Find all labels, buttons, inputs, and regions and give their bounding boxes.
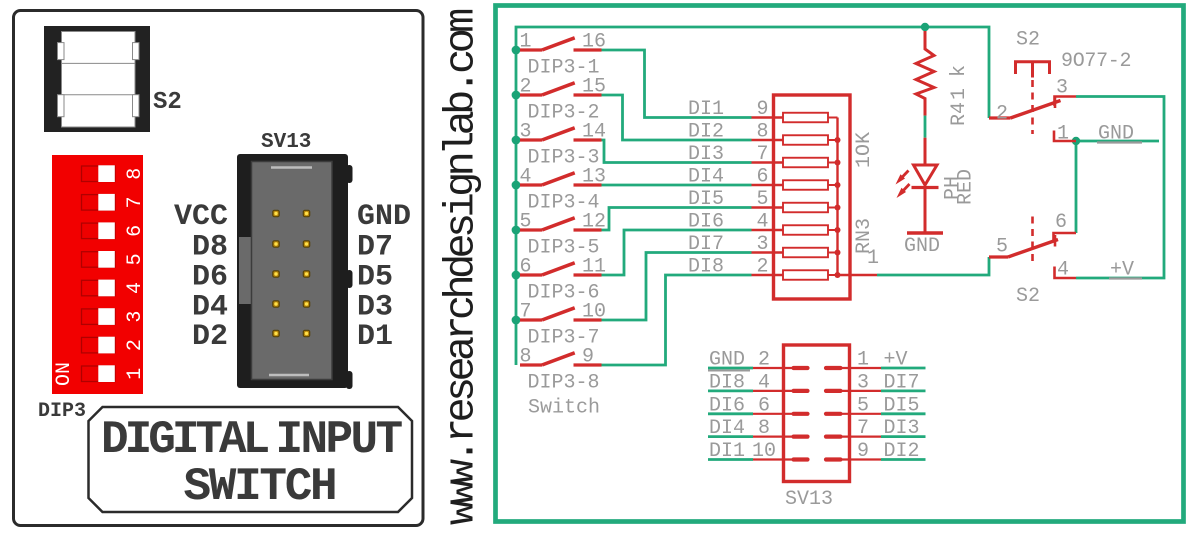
svg-text:2: 2	[758, 349, 770, 372]
svg-text:DI4: DI4	[688, 166, 724, 189]
wire S2 pin3 to +V net	[1076, 97, 1164, 279]
junction node bus pin 1	[512, 46, 521, 55]
svg-text:3: 3	[124, 311, 147, 323]
switch DIP3-3	[520, 121, 607, 170]
svg-text:D2: D2	[192, 320, 228, 354]
svg-text:3: 3	[756, 233, 768, 256]
svg-text:+V: +V	[884, 349, 908, 372]
switch DIP3-5	[520, 211, 607, 260]
net label GND	[1097, 123, 1142, 146]
svg-text:GND: GND	[904, 235, 940, 258]
svg-text:GND: GND	[357, 200, 411, 234]
svg-text:9: 9	[756, 98, 768, 121]
svg-text:11: 11	[582, 256, 606, 279]
resistor network RN3	[752, 95, 878, 299]
S2 interlock bracket	[1016, 62, 1050, 134]
svg-text:DI5: DI5	[688, 188, 724, 211]
switch S2 (board component)	[44, 26, 150, 132]
svg-text:D6: D6	[192, 261, 228, 295]
svg-text:1: 1	[124, 368, 147, 380]
switch DIP3-8	[520, 346, 602, 395]
svg-text:9: 9	[857, 440, 869, 463]
net label +V	[1109, 259, 1142, 282]
SV13 left wires and labels	[708, 349, 776, 464]
svg-text:Switch: Switch	[528, 397, 600, 420]
svg-text:6: 6	[758, 394, 770, 417]
wire DIP3-1 to RN3 pin 9	[602, 50, 752, 118]
svg-text:D5: D5	[357, 261, 393, 295]
svg-text:www.researchdesignlab.com: www.researchdesignlab.com	[438, 9, 486, 525]
svg-text:6: 6	[1055, 211, 1067, 234]
svg-text:S2: S2	[1016, 285, 1040, 308]
svg-text:GND: GND	[709, 349, 745, 372]
svg-text:4: 4	[756, 211, 768, 234]
svg-text:4: 4	[124, 282, 147, 294]
svg-text:14: 14	[582, 121, 606, 144]
board pin labels GND D7 D5 D3 D1	[357, 200, 411, 354]
svg-text:9: 9	[582, 346, 594, 369]
svg-text:7: 7	[124, 196, 147, 208]
svg-text:SV13: SV13	[261, 131, 311, 154]
svg-text:DIP3-8: DIP3-8	[528, 372, 600, 395]
junction node GND	[1072, 137, 1080, 145]
svg-text:10: 10	[582, 301, 606, 324]
svg-text:2: 2	[124, 339, 147, 351]
svg-text:8: 8	[758, 417, 770, 440]
svg-text:2: 2	[520, 76, 532, 99]
switch DIP3-1	[520, 31, 607, 80]
junction node R4 top	[921, 23, 929, 31]
junction node bus pin 4	[512, 181, 521, 190]
switch DIP3-4	[520, 166, 607, 215]
svg-text:10: 10	[752, 440, 776, 463]
svg-text:S2: S2	[153, 89, 182, 116]
svg-text:DI4: DI4	[709, 417, 745, 440]
svg-text:3: 3	[857, 371, 869, 394]
ground symbol under LED	[904, 233, 943, 258]
wire RN3 pin1 to S2 pin5	[877, 257, 989, 275]
svg-text:D8: D8	[192, 231, 228, 265]
RN3 pin numbers and net labels	[688, 98, 879, 279]
svg-text:8: 8	[124, 168, 147, 180]
switch S2 section B (pins 5-6-4)	[989, 211, 1076, 282]
svg-text:DI1: DI1	[688, 98, 724, 121]
svg-text:7: 7	[857, 417, 869, 440]
svg-text:DI7: DI7	[884, 371, 920, 394]
board outline	[14, 11, 424, 526]
svg-text:DI2: DI2	[688, 121, 724, 144]
svg-text:8: 8	[520, 346, 532, 369]
svg-text:DI2: DI2	[884, 440, 920, 463]
switch S2 section A (pins 2-3)	[989, 77, 1076, 126]
switch DIP3-2	[520, 76, 607, 125]
wire bus left vertical	[516, 27, 989, 365]
resistor R4 1k	[916, 31, 971, 138]
LED PH RED	[896, 138, 978, 233]
svg-text:7: 7	[756, 143, 768, 166]
junction node bus pin 6	[512, 271, 521, 280]
svg-text:SV13: SV13	[785, 488, 833, 511]
board pin labels VCC D8 D6 D4 D2	[174, 200, 228, 354]
svg-text:DI3: DI3	[688, 143, 724, 166]
switch DIP3-7	[520, 301, 607, 350]
connector SV13 (board component)	[237, 154, 353, 389]
svg-text:1k: 1k	[948, 54, 971, 100]
svg-text:1: 1	[857, 349, 869, 372]
wire DIP3-3 to RN3 pin 7	[602, 140, 752, 163]
svg-text:1: 1	[520, 31, 532, 54]
wire DIP3-2 to RN3 pin 8	[602, 95, 752, 140]
svg-text:6: 6	[756, 166, 768, 189]
svg-text:DI8: DI8	[688, 256, 724, 279]
svg-text:VCC: VCC	[174, 200, 228, 234]
svg-text:3: 3	[1056, 77, 1068, 100]
wire GND net from S2 pin1	[1076, 141, 1159, 233]
svg-text:5: 5	[520, 211, 532, 234]
svg-text:13: 13	[582, 166, 606, 189]
svg-text:RN3: RN3	[853, 218, 876, 254]
svg-text:R4: R4	[948, 102, 971, 126]
DIP switch DIP3 (board component)	[52, 155, 147, 394]
svg-text:1OK: 1OK	[853, 132, 876, 168]
wire DIP3-4 to RN3 pin 6	[602, 184, 752, 187]
svg-text:6: 6	[520, 256, 532, 279]
connector SV13 (schematic)	[753, 345, 881, 482]
S2 pin1	[1054, 123, 1076, 146]
svg-text:DIGITAL: DIGITAL	[101, 414, 269, 466]
svg-text:3: 3	[520, 121, 532, 144]
svg-text:15: 15	[582, 76, 606, 99]
svg-text:7: 7	[520, 301, 532, 324]
svg-text:4: 4	[520, 166, 532, 189]
svg-text:12: 12	[582, 211, 606, 234]
board title box DIGITAL INPUT SWITCH	[89, 407, 413, 513]
svg-text:RED: RED	[955, 169, 978, 205]
wire DIP3-8 to RN3 pin 2	[602, 275, 752, 365]
svg-text:2: 2	[756, 256, 768, 279]
schematic frame	[496, 6, 1184, 522]
svg-text:INPUT: INPUT	[276, 414, 403, 466]
wire DIP3-7 to RN3 pin 3	[602, 253, 752, 321]
wire DIP3-6 to RN3 pin 4	[602, 230, 752, 275]
svg-text:S2: S2	[1016, 29, 1040, 52]
svg-text:1: 1	[1057, 123, 1069, 146]
svg-text:DIP3: DIP3	[38, 400, 86, 423]
svg-text:9O77-2: 9O77-2	[1061, 50, 1131, 73]
svg-text:DI6: DI6	[709, 394, 745, 417]
junction node bus pin 2	[512, 91, 521, 100]
svg-text:DI3: DI3	[884, 417, 920, 440]
junction node bus pin 7	[512, 316, 521, 325]
svg-text:4: 4	[1057, 259, 1069, 282]
svg-text:5: 5	[756, 188, 768, 211]
svg-text:DI8: DI8	[709, 371, 745, 394]
svg-text:DI6: DI6	[688, 211, 724, 234]
svg-text:D7: D7	[357, 231, 393, 265]
wire DIP3-5 to RN3 pin 5	[602, 208, 752, 231]
junction node bus pin 3	[512, 136, 521, 145]
svg-text:D1: D1	[357, 320, 393, 354]
svg-text:DI7: DI7	[688, 233, 724, 256]
svg-text:5: 5	[124, 253, 147, 265]
svg-text:2: 2	[996, 103, 1008, 126]
svg-text:8: 8	[756, 121, 768, 144]
svg-text:5: 5	[996, 236, 1008, 259]
SV13 right wires and labels	[857, 349, 926, 464]
svg-text:5: 5	[857, 394, 869, 417]
svg-text:4: 4	[758, 371, 770, 394]
svg-text:6: 6	[124, 225, 147, 237]
junction node bus pin 5	[512, 226, 521, 235]
switch DIP3-6	[520, 256, 607, 305]
svg-text:SWITCH: SWITCH	[184, 461, 336, 513]
svg-text:16: 16	[582, 31, 606, 54]
svg-text:DI1: DI1	[709, 440, 745, 463]
svg-text:ON: ON	[53, 362, 76, 386]
svg-text:DI5: DI5	[884, 394, 920, 417]
